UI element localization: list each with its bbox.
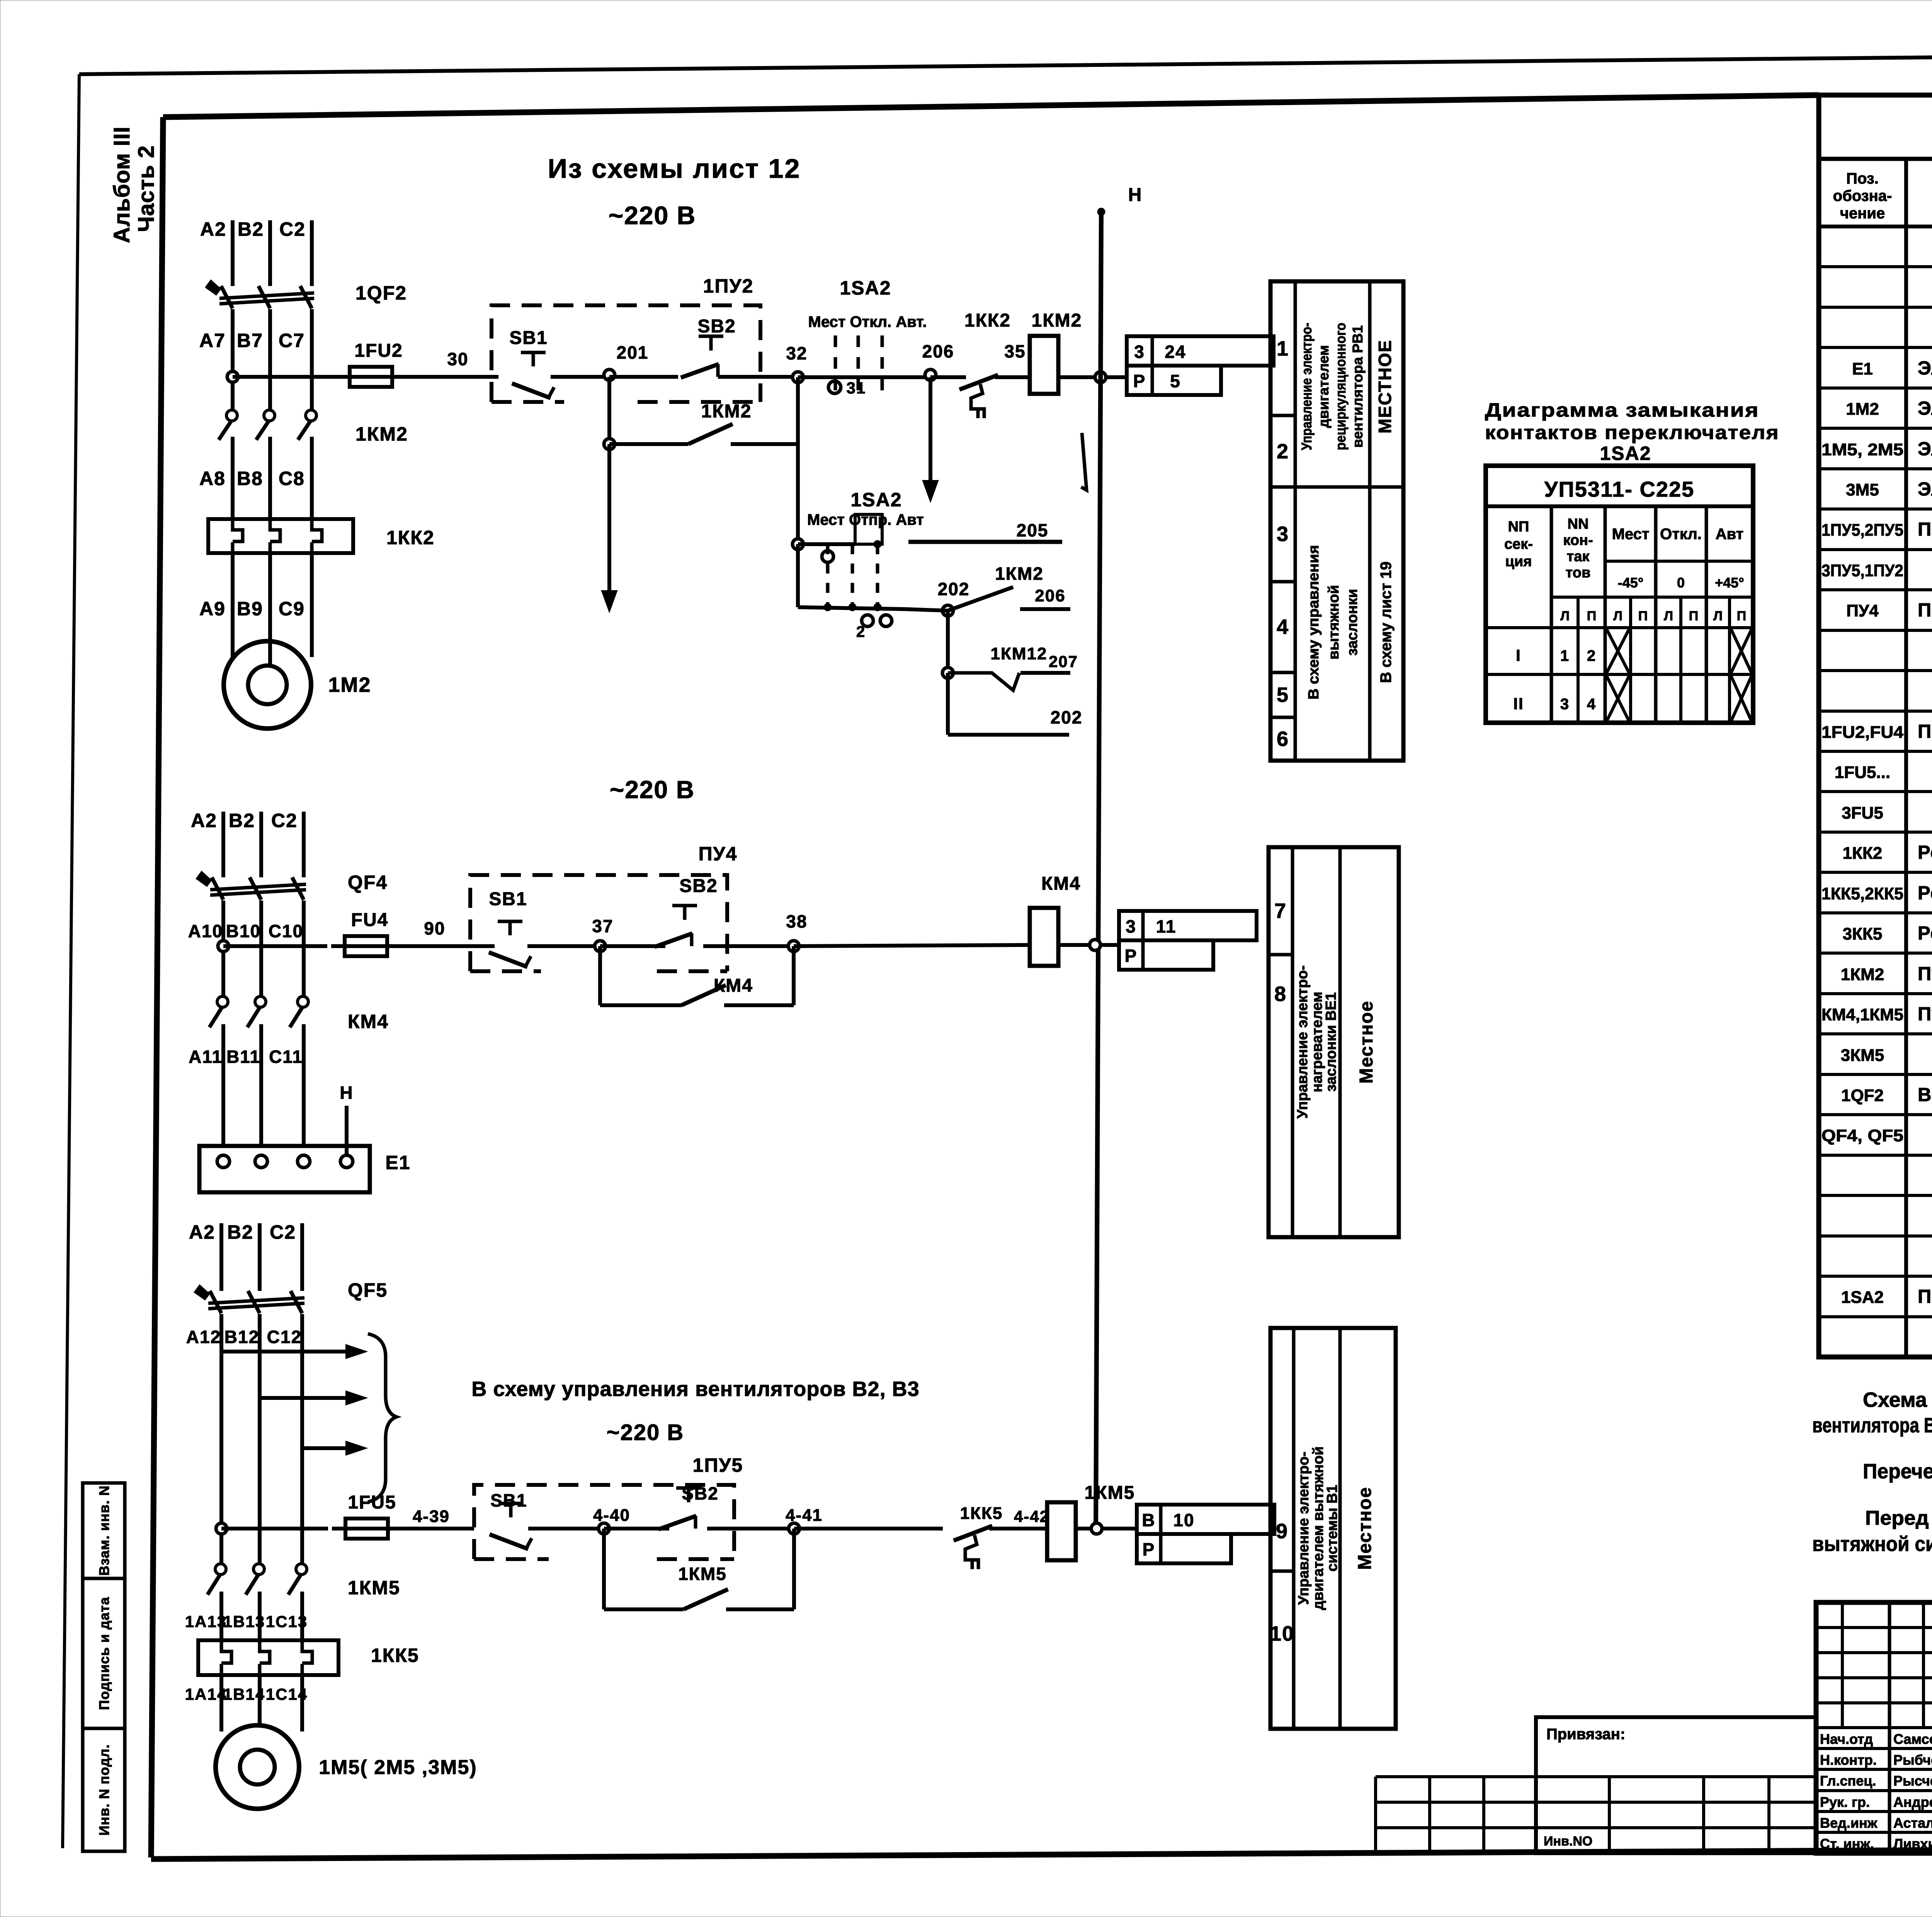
svg-text:Л: Л (1664, 609, 1673, 623)
svg-text:Местное: Местное (1356, 1000, 1377, 1083)
svg-text:В схему лист 19: В схему лист 19 (1378, 562, 1395, 683)
svg-text:1FU5...: 1FU5... (1835, 763, 1890, 782)
svg-text:А7: А7 (199, 330, 226, 351)
svg-text:Р: Р (1143, 1539, 1155, 1559)
svg-text:двигателем: двигателем (1316, 345, 1332, 428)
svg-text:FU4: FU4 (351, 910, 389, 930)
svg-text:~220 В: ~220 В (607, 1420, 684, 1445)
svg-text:П: П (1737, 609, 1746, 623)
svg-text:С12: С12 (267, 1327, 302, 1347)
svg-text:1КМ2: 1КМ2 (1032, 310, 1082, 331)
svg-text:Рук. гр.: Рук. гр. (1820, 1794, 1870, 1810)
svg-text:1М5, 2М5: 1М5, 2М5 (1821, 440, 1903, 459)
svg-text:SB1: SB1 (489, 889, 527, 909)
svg-text:Схема управления вытяжной с: Схема управления вытяжной системой выпол… (1863, 1388, 1932, 1411)
svg-text:1М2: 1М2 (328, 673, 371, 696)
svg-text:В: В (1142, 1510, 1155, 1530)
svg-text:1КК5: 1КК5 (960, 1504, 1003, 1523)
svg-text:Пост управления ПКЕ 222- 2У3: Пост управления ПКЕ 222- 2У3 (1918, 600, 1932, 621)
svg-text:202: 202 (1051, 707, 1083, 727)
svg-text:1ПУ5,2ПУ5: 1ПУ5,2ПУ5 (1821, 521, 1903, 540)
svg-text:Самсонов: Самсонов (1893, 1731, 1932, 1747)
svg-text:4-39: 4-39 (413, 1507, 450, 1526)
svg-text:Р: Р (1125, 946, 1138, 966)
svg-text:24: 24 (1165, 342, 1186, 362)
svg-text:так: так (1567, 548, 1590, 565)
svg-text:1М5( 2М5 ,3М5): 1М5( 2М5 ,3М5) (319, 1756, 477, 1779)
svg-text:1КМ2: 1КМ2 (995, 564, 1044, 584)
svg-text:1КМ2: 1КМ2 (355, 423, 408, 445)
svg-text:Ст. инж.: Ст. инж. (1820, 1836, 1874, 1852)
svg-text:1QF2: 1QF2 (1841, 1086, 1884, 1105)
svg-text:31: 31 (847, 379, 866, 397)
svg-text:Вед.инж: Вед.инж (1820, 1815, 1878, 1831)
svg-text:QF4: QF4 (348, 872, 388, 893)
svg-text:10: 10 (1173, 1510, 1194, 1530)
svg-text:С8: С8 (279, 468, 305, 489)
svg-text:Нач.отд: Нач.отд (1820, 1731, 1873, 1747)
svg-text:90: 90 (424, 918, 445, 938)
svg-text:0: 0 (1677, 575, 1685, 591)
svg-text:вытяжной: вытяжной (1326, 585, 1342, 659)
svg-text:SB1: SB1 (509, 328, 548, 348)
svg-text:Пускатель магнитный ПМЛ 1100: Пускатель магнитный ПМЛ 1100 + ПКЛ 1104 … (1918, 964, 1932, 984)
svg-text:Инв.NО: Инв.NО (1544, 1834, 1592, 1849)
svg-text:В11: В11 (226, 1047, 260, 1067)
svg-text:2: 2 (1277, 440, 1289, 463)
svg-text:Электродвигатель 4АА63В4 ~3: Электродвигатель 4АА63В4 ~380В 0,37 кВт (1918, 439, 1932, 460)
svg-text:2: 2 (856, 623, 866, 640)
svg-text:1КК2: 1КК2 (1843, 844, 1883, 863)
svg-text:38: 38 (786, 911, 807, 931)
svg-text:4-40: 4-40 (593, 1506, 630, 1525)
svg-text:6: 6 (1277, 727, 1289, 751)
svg-text:1КК5: 1КК5 (371, 1645, 419, 1666)
svg-text:NП: NП (1508, 519, 1529, 535)
svg-text:Пост управления ПКЕ 722- 2У: Пост управления ПКЕ 722- 2У3 (1918, 519, 1932, 540)
svg-text:В2: В2 (227, 1221, 253, 1243)
svg-text:С2: С2 (279, 218, 306, 240)
svg-text:II: II (1513, 695, 1524, 713)
svg-text:1FU2: 1FU2 (354, 340, 403, 361)
svg-text:1: 1 (1277, 337, 1289, 360)
svg-text:Реле тепловое РТЛ 1006 И ~2: Реле тепловое РТЛ 1006 И ~220 В Iкэ 0,95… (1918, 883, 1932, 904)
svg-text:контактов переключателя: контактов переключателя (1485, 422, 1779, 443)
svg-text:8: 8 (1274, 982, 1287, 1006)
svg-text:Реле тепловое РТЛ1010 И~22: Реле тепловое РТЛ1010 И~220 В Iкэ 3,8...… (1918, 842, 1932, 863)
svg-text:1ПУ2: 1ПУ2 (703, 275, 754, 297)
svg-text:Рыбченко: Рыбченко (1893, 1752, 1932, 1768)
svg-text:2: 2 (1587, 647, 1596, 664)
svg-text:1SA2: 1SA2 (1600, 443, 1651, 464)
svg-text:Л: Л (1560, 609, 1570, 623)
svg-text:1FU2,FU4: 1FU2,FU4 (1821, 723, 1904, 742)
svg-text:А2: А2 (200, 218, 226, 240)
svg-text:1КМ5: 1КМ5 (348, 1577, 400, 1599)
svg-text:Р: Р (1133, 371, 1146, 391)
svg-text:Реле тепловое РТЛ 1004 И ~: Реле тепловое РТЛ 1004 И ~ 220 В Iкэ 0,3… (1918, 923, 1932, 944)
svg-text:+45°: +45° (1715, 575, 1744, 591)
svg-text:С9: С9 (279, 598, 305, 620)
svg-text:30: 30 (447, 349, 468, 369)
svg-text:~220 В: ~220 В (610, 776, 695, 804)
svg-text:Часть 2: Часть 2 (134, 145, 159, 232)
svg-text:А10: А10 (188, 921, 223, 941)
svg-text:3: 3 (1277, 523, 1289, 546)
svg-text:1КМ5: 1КМ5 (1085, 1483, 1135, 1503)
svg-text:А2: А2 (191, 810, 217, 831)
svg-text:В схему управления: В схему управления (1306, 545, 1322, 700)
svg-text:Привязан:: Привязан: (1546, 1726, 1625, 1743)
svg-text:QF4, QF5: QF4, QF5 (1821, 1126, 1903, 1145)
svg-text:NN: NN (1568, 516, 1589, 532)
svg-text:207: 207 (1049, 652, 1078, 671)
svg-text:П: П (1587, 609, 1596, 623)
svg-text:9: 9 (1276, 1520, 1288, 1543)
svg-text:Местное: Местное (1355, 1486, 1375, 1570)
svg-text:1КК5,2КК5: 1КК5,2КК5 (1821, 884, 1903, 903)
svg-text:Гл.спец.: Гл.спец. (1820, 1773, 1876, 1789)
svg-text:1КМ2: 1КМ2 (1841, 965, 1884, 984)
svg-text:Электронагреватель ~ 380 В: Электронагреватель ~ 380 В 2,4кВт (1918, 358, 1932, 379)
svg-text:В9: В9 (237, 598, 263, 620)
svg-text:заслонки: заслонки (1344, 589, 1361, 656)
svg-text:1М2: 1М2 (1846, 400, 1879, 419)
svg-text:206: 206 (922, 341, 954, 361)
svg-text:чение: чение (1840, 205, 1885, 222)
svg-text:А12: А12 (186, 1327, 221, 1347)
svg-text:Электродвигатель 4АА56А4 ~38: Электродвигатель 4АА56А4 ~380В 0,12 кВт (1918, 479, 1932, 500)
svg-text:П: П (1638, 609, 1648, 623)
svg-text:Л: Л (1713, 609, 1723, 623)
svg-text:вентилятора В1. Для вентиля: вентилятора В1. Для вентиляторов В2, В3 … (1812, 1414, 1932, 1437)
svg-text:5: 5 (1170, 371, 1181, 391)
svg-text:Управление электро-: Управление электро- (1299, 323, 1315, 450)
svg-text:7: 7 (1274, 899, 1287, 923)
svg-text:32: 32 (786, 343, 807, 363)
svg-text:1SA2: 1SA2 (1841, 1288, 1884, 1307)
svg-text:сек-: сек- (1504, 536, 1533, 552)
svg-text:С10: С10 (269, 921, 303, 941)
svg-text:обозна-: обозна- (1833, 187, 1892, 204)
svg-text:Н.контр.: Н.контр. (1820, 1752, 1877, 1768)
svg-text:В10: В10 (226, 921, 261, 941)
svg-text:Управление электро-: Управление электро- (1294, 965, 1311, 1119)
svg-text:П: П (1689, 609, 1698, 623)
svg-text:С2: С2 (271, 810, 298, 831)
svg-text:А8: А8 (199, 468, 226, 489)
svg-text:А11: А11 (189, 1047, 223, 1067)
svg-text:1КК2: 1КК2 (386, 527, 435, 548)
svg-text:I: I (1516, 646, 1521, 664)
svg-text:МЕСТНОЕ: МЕСТНОЕ (1375, 340, 1395, 434)
svg-text:Диаграмма замыкания: Диаграмма замыкания (1485, 399, 1759, 421)
svg-text:3КМ5: 3КМ5 (1841, 1046, 1884, 1065)
svg-text:Рысченко: Рысченко (1893, 1773, 1932, 1789)
svg-text:202: 202 (938, 579, 970, 599)
svg-text:Подпись и дата: Подпись и дата (96, 1597, 112, 1710)
svg-text:ПУ4: ПУ4 (699, 843, 738, 865)
svg-text:КМ4: КМ4 (1041, 873, 1081, 894)
svg-text:кон-: кон- (1563, 532, 1593, 548)
svg-text:Взам. инв. N: Взам. инв. N (96, 1485, 112, 1576)
svg-text:С7: С7 (279, 330, 305, 351)
svg-text:4-42: 4-42 (1014, 1507, 1049, 1525)
svg-text:QF5: QF5 (348, 1279, 388, 1301)
svg-text:3: 3 (1134, 342, 1145, 362)
svg-text:Н: Н (340, 1083, 353, 1103)
svg-text:рециркуляционного: рециркуляционного (1333, 323, 1349, 450)
svg-text:ПУ4: ПУ4 (1846, 601, 1879, 620)
svg-text:1КМ12: 1КМ12 (991, 644, 1048, 663)
svg-text:35: 35 (1004, 341, 1026, 361)
svg-text:Ливхинд: Ливхинд (1893, 1836, 1932, 1852)
svg-text:37: 37 (592, 916, 613, 936)
svg-text:Пускатель магнитный ПМЛ 110: Пускатель магнитный ПМЛ 1100 И~220 В (1918, 1004, 1932, 1025)
svg-text:системы В1: системы В1 (1324, 1485, 1340, 1572)
svg-text:заслонки ВЕ1: заслонки ВЕ1 (1323, 992, 1339, 1091)
svg-text:201: 201 (617, 342, 649, 363)
svg-text:4-41: 4-41 (786, 1506, 823, 1525)
svg-text:Е1: Е1 (385, 1152, 410, 1173)
svg-text:-45°: -45° (1618, 575, 1643, 591)
svg-text:КМ4: КМ4 (348, 1011, 389, 1032)
svg-text:В8: В8 (237, 468, 263, 489)
svg-text:206: 206 (1035, 586, 1065, 605)
svg-text:Е1: Е1 (1852, 359, 1873, 378)
svg-text:SB2: SB2 (679, 876, 718, 896)
svg-text:4: 4 (1277, 615, 1289, 638)
svg-text:Астальцева: Астальцева (1893, 1815, 1932, 1831)
svg-text:1FU5: 1FU5 (348, 1492, 396, 1513)
svg-text:Переключатель УП5311- С225: Переключатель УП5311- С225 У3 (1918, 1286, 1932, 1307)
svg-text:1КК2: 1КК2 (964, 310, 1011, 331)
svg-text:Инв. N подл.: Инв. N подл. (96, 1744, 112, 1836)
svg-text:1КМ2: 1КМ2 (701, 401, 752, 422)
svg-text:В схему управления вентилято: В схему управления вентиляторов В2, В3 (471, 1377, 919, 1401)
svg-text:SB1: SB1 (490, 1490, 527, 1510)
svg-text:УП5311- С225: УП5311- С225 (1544, 477, 1695, 501)
svg-text:В2: В2 (238, 218, 264, 240)
svg-text:Электродвигатель 4А90L6 ~380: Электродвигатель 4А90L6 ~380 В 1,5 кВт (1918, 398, 1932, 419)
svg-text:10: 10 (1270, 1622, 1294, 1645)
svg-text:КМ4,1КМ5: КМ4,1КМ5 (1821, 1005, 1903, 1024)
svg-text:Н: Н (1128, 185, 1143, 205)
svg-text:5: 5 (1277, 683, 1289, 707)
svg-text:А9: А9 (199, 598, 226, 620)
svg-text:Авт: Авт (1716, 526, 1744, 543)
svg-text:3М5: 3М5 (1846, 480, 1879, 499)
svg-text:3: 3 (1126, 916, 1136, 936)
svg-text:~220 В: ~220 В (609, 201, 696, 230)
svg-text:Откл.: Откл. (1660, 526, 1702, 543)
svg-text:Выключатель АЕ2026 И~660 В I: Выключатель АЕ2026 И~660 В I 5А, Iотс 12… (1918, 1084, 1932, 1105)
svg-text:1ПУ5: 1ПУ5 (693, 1454, 743, 1476)
svg-text:В12: В12 (224, 1327, 259, 1347)
svg-text:3FU5: 3FU5 (1842, 804, 1883, 822)
svg-text:Андреева: Андреева (1893, 1794, 1932, 1810)
svg-text:Мест: Мест (1612, 526, 1650, 543)
svg-text:3ПУ5,1ПУ2: 3ПУ5,1ПУ2 (1821, 561, 1903, 580)
svg-text:вытяжной системой проставить: вытяжной системой проставить номер соотв… (1812, 1532, 1932, 1556)
svg-text:3: 3 (1560, 696, 1570, 713)
svg-text:4: 4 (1587, 696, 1596, 713)
svg-text:Л: Л (1613, 609, 1622, 623)
svg-text:Перед маркировкой проводов: Перед маркировкой проводов и аппаратуры … (1865, 1507, 1932, 1529)
svg-text:Альбом III: Альбом III (109, 126, 134, 243)
svg-text:1SA2: 1SA2 (840, 277, 891, 299)
svg-text:В2: В2 (229, 810, 255, 831)
svg-text:тов: тов (1566, 565, 1591, 581)
svg-text:3КК5: 3КК5 (1843, 924, 1883, 943)
svg-text:205: 205 (1017, 520, 1049, 540)
svg-text:11: 11 (1156, 916, 1177, 936)
svg-text:Управление электро-: Управление электро- (1296, 1452, 1312, 1605)
svg-text:ция: ция (1505, 553, 1532, 570)
svg-text:Мест Откл. Авт.: Мест Откл. Авт. (808, 313, 927, 330)
svg-text:вентилятора РВ1: вентилятора РВ1 (1350, 325, 1366, 448)
svg-text:Из схемы лист 12: Из схемы лист 12 (548, 153, 801, 184)
svg-text:1КМ5: 1КМ5 (678, 1564, 727, 1584)
svg-text:С11: С11 (269, 1047, 303, 1067)
svg-text:Предохранитель ПРС-6-П Эпл.вс: Предохранитель ПРС-6-П Эпл.вст 2А (1918, 721, 1932, 742)
svg-text:1SA2: 1SA2 (850, 489, 902, 511)
svg-text:А2: А2 (189, 1221, 215, 1243)
svg-text:Поз.: Поз. (1846, 170, 1879, 187)
svg-text:SB2: SB2 (697, 316, 736, 337)
svg-text:В7: В7 (237, 330, 263, 351)
svg-text:Перечень элементов выполнен: Перечень элементов выполнен для трех вен… (1863, 1460, 1932, 1483)
svg-text:С2: С2 (270, 1221, 296, 1243)
svg-text:1: 1 (1560, 647, 1570, 664)
svg-text:1QF2: 1QF2 (355, 282, 407, 304)
